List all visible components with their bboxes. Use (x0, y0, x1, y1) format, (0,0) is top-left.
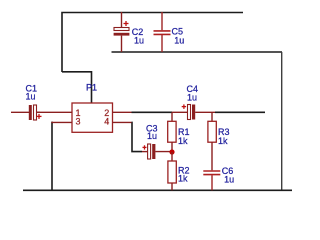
svg-text:1u: 1u (187, 92, 197, 102)
C3 plates (148, 144, 156, 159)
svg-text:3: 3 (76, 116, 81, 126)
C1 plus mark (37, 114, 42, 119)
svg-text:1u: 1u (134, 36, 144, 46)
svg-text:1u: 1u (26, 92, 36, 102)
capacitor C1 (polarized, horizontal input cap) (11, 84, 42, 121)
svg-text:1u: 1u (224, 174, 234, 184)
C2 plus mark (124, 21, 129, 26)
svg-text:1u: 1u (147, 131, 157, 141)
pin 1 lead (37, 111, 73, 113)
wire pin 2 to C4 (132, 111, 173, 113)
C4 plus mark (182, 104, 186, 109)
svg-text:1k: 1k (218, 136, 228, 146)
C6 plates (203, 171, 220, 175)
pin 2 lead (113, 111, 132, 113)
wire C4 right to dead end (215, 111, 265, 113)
svg-text:P1: P1 (86, 82, 97, 92)
capacitor C3 (polarized, horizontal) (142, 123, 172, 159)
C2 plates (114, 28, 130, 36)
connector P1 (37, 82, 132, 132)
wire pin 4 to C3 (132, 122, 143, 151)
wire mid rail under C2/C5 (112, 51, 283, 53)
pin 4 lead (113, 121, 132, 123)
svg-text:1k: 1k (178, 136, 188, 146)
junction node R1/R2/C3 (169, 149, 174, 154)
resistor R1 (168, 112, 190, 152)
wire bottom rail (ground net) (23, 189, 292, 191)
resistor R2 (168, 152, 190, 190)
svg-text:4: 4 (104, 116, 109, 126)
C4 plates (188, 105, 196, 120)
C5 plates (154, 31, 171, 35)
C1 plates (29, 105, 37, 120)
capacitor C2 (polarized, vertical) (114, 12, 144, 52)
C3 plus mark (143, 145, 147, 149)
wire from left rail to P1 top (62, 72, 92, 103)
wire right vertical (281, 52, 283, 190)
wire top rail (VCC net) (62, 13, 243, 73)
svg-text:1u: 1u (174, 36, 184, 46)
capacitor C6 (vertical) (203, 166, 234, 191)
pin 3 lead (51, 121, 72, 123)
svg-text:1k: 1k (178, 174, 188, 184)
wire pin 3 drop to bottom rail (52, 122, 53, 190)
capacitor C5 (vertical) (154, 12, 185, 52)
resistor R3 (208, 112, 230, 170)
capacitor C4 (polarized, horizontal) (172, 84, 215, 120)
